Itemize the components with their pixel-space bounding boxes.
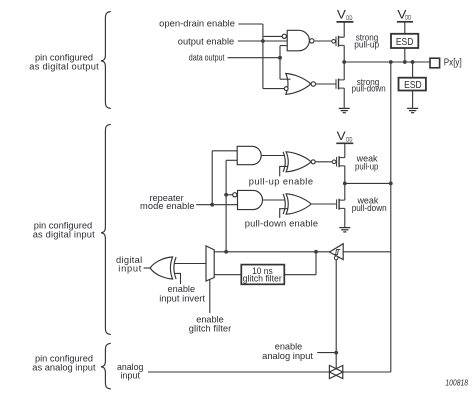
svg-text:enable: enable	[168, 284, 196, 294]
svg-text:V: V	[337, 131, 346, 143]
svg-text:analog input: analog input	[262, 351, 313, 361]
wire VDD to strong PMOS drain	[343, 22, 345, 37]
svg-text:DD: DD	[346, 136, 352, 143]
wire receiver input from bus	[343, 251, 391, 253]
power VDD strong pull-up	[337, 21, 354, 23]
ground ESD	[407, 108, 418, 112]
wire NOR output to strong NMOS gate	[315, 83, 335, 85]
wire enable analog input	[317, 352, 336, 354]
wire glitch filter right	[284, 274, 316, 276]
junction repeater branch	[210, 203, 214, 207]
svg-text:input: input	[118, 264, 141, 274]
svg-text:as digital output: as digital output	[29, 62, 99, 72]
wire to NOR inverted input	[263, 88, 284, 90]
ESD cell lower	[399, 78, 426, 91]
wire ESD1 to pad line	[404, 48, 406, 62]
brace pin configured as analog input	[101, 343, 111, 389]
ground weak pull-down	[339, 228, 350, 232]
wire pull-up enable elbow	[280, 166, 288, 176]
svg-text:ESD: ESD	[396, 36, 414, 48]
wire weak node to bus	[345, 182, 391, 184]
wire pad line to ESD2	[412, 62, 414, 78]
wire output enable into NAND	[238, 40, 287, 42]
junction weak node at bus	[389, 182, 393, 186]
junction ESD2 at pad line	[411, 60, 415, 64]
svg-text:ESD: ESD	[404, 79, 422, 91]
svg-text:as analog input: as analog input	[32, 363, 96, 373]
wire NAND output to strong PMOS gate	[315, 40, 332, 42]
junction data output branch	[278, 56, 282, 60]
svg-text:pull-up: pull-up	[354, 40, 379, 50]
wire AND1 input 2	[226, 159, 237, 161]
gate XOR1 enable input invert (points left)	[150, 257, 176, 279]
bubble NOR inverted input	[284, 87, 288, 91]
wire repeater branch vertical	[211, 151, 213, 205]
svg-text:glitch filter: glitch filter	[189, 324, 232, 334]
gate XOR2 pull-down enable	[283, 194, 311, 214]
bubble AND2 inverted input	[233, 193, 237, 197]
svg-text:pull-down: pull-down	[352, 203, 387, 213]
wire strong NMOS source to ground	[343, 88, 345, 108]
junction enable analog input	[334, 351, 338, 355]
gate NOR U2 (output enable / data output)	[286, 74, 311, 95]
svg-text:output enable: output enable	[178, 36, 234, 46]
svg-text:input: input	[120, 371, 140, 381]
wire receiver output line	[214, 251, 329, 253]
wire pad bus vertical	[390, 62, 392, 372]
junction strong output node	[342, 60, 346, 64]
ESD cell upper	[391, 34, 418, 48]
wire receiver feedback vertical	[225, 160, 227, 252]
svg-text:V: V	[337, 10, 346, 22]
transistor Q3 weak pull-up PMOS	[332, 156, 345, 167]
svg-text:pull-down enable: pull-down enable	[245, 218, 318, 228]
wire enable input invert elbow	[175, 273, 181, 284]
wire data output horizontal	[228, 57, 281, 59]
wire repeater mode enable	[196, 204, 237, 206]
junction output enable at NAND branch	[261, 39, 265, 43]
wire open-drain / output-enable vertical	[262, 24, 264, 89]
wire XNOR output to weak PMOS gate	[315, 161, 332, 163]
svg-text:data output: data output	[189, 52, 225, 62]
svg-text:DD: DD	[346, 15, 352, 22]
gate AND2 repeater pull-down	[238, 190, 263, 209]
switch analog bowtie left triangle	[329, 365, 342, 378]
gate NAND U1 (open-drain / output enable / data output)	[287, 30, 309, 51]
wire XOR2 output to weak NMOS gate	[311, 203, 336, 205]
svg-text:input invert: input invert	[159, 294, 205, 304]
power VDD ESD	[397, 21, 413, 23]
junction weak node left	[343, 182, 347, 186]
wire open-drain enable horizontal	[238, 23, 263, 25]
ground strong pull-down	[339, 108, 350, 112]
wire receiver enable vertical	[335, 260, 337, 369]
svg-text:glitch filter: glitch filter	[243, 274, 282, 284]
junction feedback to AND2	[224, 193, 228, 197]
wire AND2 inverted input stub	[226, 194, 233, 196]
wire NOR input 1	[280, 78, 291, 80]
wire to NAND inverted input	[263, 35, 282, 37]
wire VDD to weak PMOS drain	[344, 143, 346, 157]
mux glitch filter select	[206, 246, 214, 281]
transistor Q1 strong pull-up PMOS	[332, 36, 344, 47]
power VDD weak pull-up	[336, 142, 353, 144]
wire ESD2 to ground	[412, 91, 414, 108]
svg-text:Px[y]: Px[y]	[444, 57, 462, 68]
svg-text:DD: DD	[405, 15, 411, 22]
wire VDD to ESD1	[404, 22, 406, 34]
wire glitch filter branch vertical	[315, 252, 317, 275]
gate XNOR1 pull-up enable	[283, 152, 315, 172]
svg-text:open-drain enable: open-drain enable	[159, 19, 235, 29]
transistor Q4 weak pull-down NMOS	[337, 199, 345, 210]
wire AND2 output to XOR2	[263, 199, 285, 201]
svg-text:100818: 100818	[445, 378, 468, 388]
wire NAND input 3	[280, 45, 287, 47]
wire mux output to XOR1	[175, 263, 207, 265]
svg-text:pull-up: pull-up	[355, 161, 378, 171]
junction glitch filter branch	[314, 250, 318, 254]
wire AND1 input 1	[212, 150, 237, 152]
wire strong output node vertical	[343, 45, 345, 80]
wire weak node vertical	[344, 166, 346, 200]
wire pull-down enable elbow	[280, 209, 288, 218]
wire XOR1 output digital input	[144, 267, 151, 269]
svg-text:mode enable: mode enable	[140, 201, 195, 211]
junction ESD1 at pad line	[403, 60, 407, 64]
wire data output vertical branch	[279, 46, 281, 80]
junction feedback at receiver line	[224, 250, 228, 254]
pad Px[y]	[430, 58, 440, 68]
box 10 ns glitch filter	[241, 265, 284, 285]
bubble NOR output	[311, 82, 315, 86]
svg-text:as digital input: as digital input	[33, 230, 95, 240]
wire mux select enable glitch filter	[209, 280, 211, 313]
switch analog bowtie right triangle	[329, 365, 342, 378]
gate AND1 repeater pull-up	[237, 146, 261, 164]
svg-text:pull-down: pull-down	[352, 84, 386, 94]
bubble NAND input	[282, 34, 286, 38]
buffer U3 input receiver schmitt trigger	[330, 244, 344, 260]
bubble NAND output	[310, 39, 314, 43]
transistor Q2 strong pull-down NMOS	[336, 79, 344, 90]
wire analog input line	[148, 371, 329, 373]
wire AND1 output to XNOR	[261, 155, 284, 157]
wire analog line right of switch	[343, 371, 391, 373]
wire pad line to Px[y]	[344, 61, 430, 63]
brace pin configured as digital input	[101, 124, 111, 334]
wire weak NMOS source to ground	[344, 208, 346, 227]
svg-text:pull-up enable: pull-up enable	[249, 177, 313, 187]
junction bus at pad line	[389, 60, 393, 64]
brace pin configured as digital output	[101, 12, 111, 109]
wire glitch filter left to mux	[214, 274, 241, 276]
